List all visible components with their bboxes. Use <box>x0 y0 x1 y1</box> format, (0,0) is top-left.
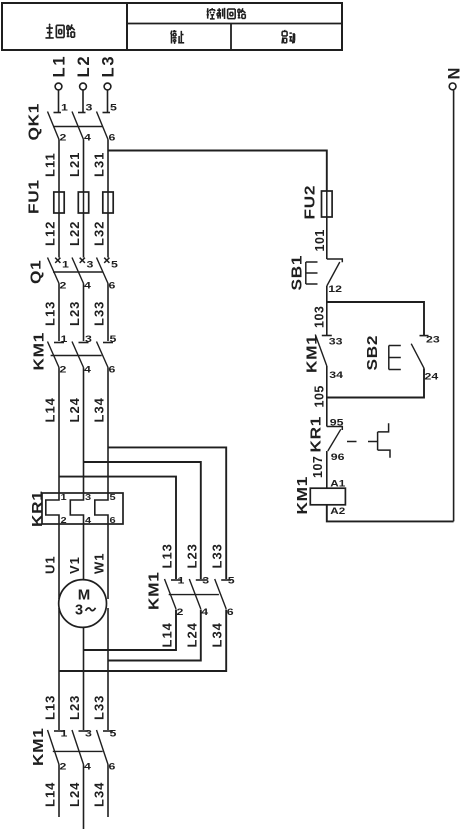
svg-text:SB2: SB2 <box>364 335 381 371</box>
QK1 pin 3 <box>86 103 93 113</box>
branch KM1 pin 1 <box>178 576 185 586</box>
svg-text:1: 1 <box>61 103 68 113</box>
bottom KM1 pin 5 <box>110 729 117 739</box>
fuse FU1 <box>54 192 113 213</box>
KM1 aux pin 33 <box>329 337 343 347</box>
Q1 pin 1 <box>62 260 69 270</box>
svg-text:Q1: Q1 <box>28 260 45 284</box>
thermal relay KR1 heaters <box>42 493 123 524</box>
wire node 103 <box>326 286 328 336</box>
wire L14 <box>58 368 60 494</box>
svg-text:L13: L13 <box>43 695 58 720</box>
svg-text:L12: L12 <box>43 221 58 246</box>
svg-text:3: 3 <box>85 729 92 739</box>
svg-text:3: 3 <box>202 576 209 586</box>
QK1 pin 1 <box>61 103 68 113</box>
svg-text:L23: L23 <box>184 543 199 568</box>
svg-text:1: 1 <box>62 260 69 270</box>
svg-text:KM1: KM1 <box>146 572 163 610</box>
table text: 控制回路 (control circuit) <box>207 8 246 19</box>
thermal relay KR1 NC contact <box>327 427 343 452</box>
svg-text:N: N <box>446 68 460 80</box>
wire branch 105 rail <box>327 368 424 397</box>
svg-text:L31: L31 <box>92 152 107 177</box>
wire L21 <box>83 140 85 193</box>
wire N vertical <box>453 90 455 522</box>
svg-text:2: 2 <box>60 281 67 291</box>
svg-text:V1: V1 <box>67 556 82 574</box>
svg-text:3: 3 <box>85 493 92 502</box>
svg-text:6: 6 <box>109 133 116 143</box>
svg-text:L11: L11 <box>43 152 58 177</box>
wire L31 tap to control circuit <box>108 151 327 192</box>
svg-text:L22: L22 <box>67 221 82 246</box>
svg-text:L34: L34 <box>92 782 107 807</box>
svg-text:96: 96 <box>331 452 345 462</box>
KM1 pin 4 <box>84 365 92 375</box>
svg-text:5: 5 <box>110 729 117 739</box>
KR1 pin 5 <box>110 493 117 502</box>
wire branch 103 rail <box>327 302 424 336</box>
bottom KM1 pin 4 <box>84 762 92 772</box>
branch KM1 pin 3 <box>202 576 209 586</box>
table text: 停止 (stop) <box>171 30 184 44</box>
wire bottom L34 <box>107 765 109 818</box>
svg-text:M: M <box>78 587 91 604</box>
wire branch pole2 bottom to motor W <box>108 610 201 661</box>
svg-text:3: 3 <box>85 334 92 344</box>
svg-text:L13: L13 <box>43 301 58 326</box>
svg-text:L3: L3 <box>100 55 118 78</box>
svg-text:L14: L14 <box>160 622 175 647</box>
svg-text:KM1: KM1 <box>30 728 47 766</box>
svg-text:23: 23 <box>426 335 440 345</box>
svg-text:6: 6 <box>109 762 116 772</box>
svg-text:FU2: FU2 <box>302 185 319 220</box>
wire L23 <box>83 284 85 342</box>
svg-text:3: 3 <box>87 260 94 270</box>
KR1 pin 4 <box>85 516 92 525</box>
svg-text:KM1: KM1 <box>294 476 311 514</box>
wire motor lead U <box>58 608 60 730</box>
wire branch pole3 bottom to motor U <box>59 610 226 672</box>
svg-text:L2: L2 <box>75 55 93 78</box>
svg-text:L14: L14 <box>43 397 58 422</box>
wire branch pole1 bottom to motor V <box>84 610 177 651</box>
svg-text:103: 103 <box>313 306 327 328</box>
svg-text:L21: L21 <box>67 152 82 177</box>
Q1 pin 6 <box>109 281 116 291</box>
svg-text:4: 4 <box>201 607 209 617</box>
svg-text:L24: L24 <box>184 622 199 647</box>
svg-text:SB1: SB1 <box>289 255 306 291</box>
contactor KM1 bottom contacts <box>48 730 114 765</box>
svg-text:6: 6 <box>109 281 116 291</box>
Q1 pin 3 <box>87 260 94 270</box>
svg-text:W1: W1 <box>92 553 107 575</box>
svg-text:U1: U1 <box>43 555 58 574</box>
wire tap L24 to branch pole2 <box>84 462 201 579</box>
svg-text:34: 34 <box>329 370 344 380</box>
wire tap L34 to branch pole3 <box>108 447 226 579</box>
KR1 pin 2 <box>61 516 68 525</box>
svg-text:12: 12 <box>328 284 342 294</box>
fuse FU2 <box>322 191 333 217</box>
svg-text:95: 95 <box>330 418 344 428</box>
QK1 pin 6 <box>109 133 116 143</box>
svg-text:4: 4 <box>84 281 92 291</box>
svg-text:L34: L34 <box>92 397 107 422</box>
QK1 pin 4 <box>84 133 92 143</box>
svg-text:1: 1 <box>61 729 68 739</box>
wire L32 <box>107 213 109 258</box>
svg-text:QK1: QK1 <box>26 103 43 141</box>
KM1 pin 6 <box>109 365 116 375</box>
KR1 trip linkage <box>347 423 390 458</box>
svg-text:L34: L34 <box>210 622 225 647</box>
wire motor lead V <box>83 627 85 730</box>
svg-text:KM1: KM1 <box>31 332 48 370</box>
svg-text:KR1: KR1 <box>308 416 325 453</box>
SB2 pin 23 <box>426 335 440 345</box>
coil KM1 <box>310 488 345 505</box>
svg-text:105: 105 <box>313 385 327 407</box>
svg-text:L24: L24 <box>67 782 82 807</box>
QK1 pin 2 <box>60 133 67 143</box>
svg-text:3: 3 <box>86 103 93 113</box>
terminal L3 <box>104 83 111 112</box>
Q1 pin 2 <box>60 281 67 291</box>
wire U1 <box>58 524 60 599</box>
svg-text:2: 2 <box>61 516 68 525</box>
svg-text:L33: L33 <box>92 695 107 720</box>
svg-text:107: 107 <box>311 456 325 478</box>
svg-text:4: 4 <box>84 762 92 772</box>
svg-text:KR1: KR1 <box>29 490 46 527</box>
svg-text:L1: L1 <box>51 55 69 78</box>
breaker Q1 <box>48 258 110 284</box>
svg-text:6: 6 <box>109 365 116 375</box>
table text: 启动 (start) <box>282 30 295 43</box>
header table frame <box>2 3 342 50</box>
wire bottom L24 <box>83 765 85 830</box>
svg-text:A1: A1 <box>330 480 345 489</box>
breaker QK1 <box>48 112 111 140</box>
branch KM1 pin 4 <box>201 607 209 617</box>
svg-text:KM1: KM1 <box>304 335 321 373</box>
motor M 3~ <box>59 580 107 628</box>
wire L11 <box>58 140 60 193</box>
svg-text:4: 4 <box>84 365 92 375</box>
KM1 pin 1 <box>61 334 68 344</box>
svg-text:5: 5 <box>228 576 235 586</box>
branch KM1 pin 5 <box>228 576 235 586</box>
svg-text:2: 2 <box>60 365 67 375</box>
svg-text:L24: L24 <box>67 397 82 422</box>
bottom KM1 pin 6 <box>109 762 116 772</box>
contactor KM1 main contacts <box>48 342 114 368</box>
svg-text:33: 33 <box>329 337 343 347</box>
bottom KM1 pin 2 <box>60 762 67 772</box>
QK1 pin 5 <box>110 103 117 113</box>
wire 34 to node 105 <box>326 366 328 427</box>
KM1 pin 2 <box>60 365 67 375</box>
wire node 107 <box>326 451 328 488</box>
svg-text:L33: L33 <box>210 543 225 568</box>
svg-text:101: 101 <box>313 229 327 251</box>
svg-text:4: 4 <box>84 133 92 143</box>
wire motor lead W <box>107 608 109 730</box>
svg-text:2: 2 <box>177 607 184 617</box>
KM1 coil pin A1 <box>330 480 345 489</box>
wire W1 <box>107 524 109 599</box>
svg-text:L14: L14 <box>43 782 58 807</box>
wire L12 <box>58 213 60 258</box>
svg-text:4: 4 <box>85 516 92 525</box>
svg-text:6: 6 <box>110 516 117 525</box>
svg-text:6: 6 <box>227 607 234 617</box>
svg-text:L32: L32 <box>92 221 107 246</box>
wire L22 <box>83 213 85 258</box>
svg-text:1: 1 <box>61 334 68 344</box>
svg-text:2: 2 <box>60 762 67 772</box>
KM1 pin 5 <box>110 334 117 344</box>
KR1 pin 3 <box>85 493 92 502</box>
wire L33 <box>107 284 109 342</box>
svg-text:L33: L33 <box>92 301 107 326</box>
terminal N <box>449 83 456 90</box>
SB2 pin 24 <box>425 372 440 382</box>
wire coil A2 to N <box>327 505 454 522</box>
contactor KM1 branch contacts <box>165 579 232 609</box>
KM1 aux pin 34 <box>329 370 344 380</box>
branch KM1 pin 6 <box>227 607 234 617</box>
svg-text:5: 5 <box>110 493 117 502</box>
terminal L2 <box>80 83 87 112</box>
wire bottom L14 <box>58 765 60 818</box>
svg-text:2: 2 <box>60 133 67 143</box>
svg-text:5: 5 <box>111 260 118 270</box>
terminal L1 <box>55 83 62 112</box>
svg-text:5: 5 <box>110 103 117 113</box>
svg-text:L13: L13 <box>160 543 175 568</box>
wire L34 <box>107 368 109 494</box>
svg-text:1: 1 <box>61 493 68 502</box>
bottom KM1 pin 3 <box>85 729 92 739</box>
bottom KM1 pin 1 <box>61 729 68 739</box>
svg-text:5: 5 <box>110 334 117 344</box>
KM1 pin 3 <box>85 334 92 344</box>
svg-text:1: 1 <box>178 576 185 586</box>
KR1 pin 6 <box>110 516 117 525</box>
KR1 pin 96 <box>331 452 345 462</box>
svg-text:3: 3 <box>75 603 83 619</box>
branch KM1 pin 2 <box>177 607 184 617</box>
wire node 101 <box>326 217 328 259</box>
KR1 pin 1 <box>61 493 68 502</box>
KR1 pin 95 <box>330 418 344 428</box>
wire L31 <box>107 140 109 193</box>
wire L13 <box>58 284 60 342</box>
svg-text:FU1: FU1 <box>26 179 43 214</box>
pushbutton SB2 (NO start) <box>389 336 429 370</box>
table text: 主回路 (main circuit) <box>45 24 74 38</box>
wire V1 <box>83 524 85 580</box>
svg-text:L23: L23 <box>67 695 82 720</box>
Q1 pin 4 <box>84 281 92 291</box>
svg-text:L23: L23 <box>67 301 82 326</box>
Q1 pin 5 <box>111 260 118 270</box>
svg-text:24: 24 <box>425 372 440 382</box>
SB1 pin 12 <box>328 284 342 294</box>
wire L24 <box>83 368 85 494</box>
KM1 coil pin A2 <box>330 507 345 516</box>
svg-text:A2: A2 <box>330 507 345 516</box>
pushbutton SB1 (NC stop) <box>306 259 343 286</box>
contactor KM1 auxiliary contact (hold-in) <box>315 335 332 367</box>
wire tap L14 to branch pole1 <box>59 477 176 579</box>
